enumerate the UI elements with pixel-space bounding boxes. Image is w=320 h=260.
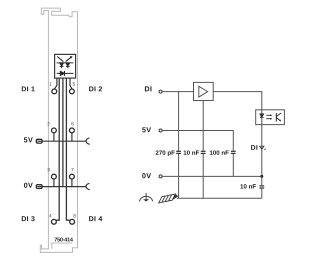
label 10 nF C4 xyxy=(240,184,255,188)
label 10 nF xyxy=(184,150,199,154)
amp triangle xyxy=(199,86,208,97)
5V pin symbol xyxy=(36,139,42,143)
terminal 1 xyxy=(52,89,57,94)
terminal 8 xyxy=(70,219,75,224)
label 100 nF xyxy=(210,150,229,154)
terminal 5 xyxy=(70,89,75,94)
label 5 V left xyxy=(24,137,33,142)
label DI 1 xyxy=(22,86,35,91)
capacitor C1 270pF xyxy=(176,151,181,153)
wire C1 to FE rail xyxy=(178,154,180,198)
LED box xyxy=(55,54,76,78)
LED D2 xyxy=(66,56,73,68)
5V terminal xyxy=(159,129,162,132)
terminal 6 xyxy=(70,128,75,133)
wire box to terminal 1 xyxy=(54,78,57,89)
wire opto to 0V junction xyxy=(261,118,263,177)
module foot plateau xyxy=(52,243,73,249)
label DI 4 xyxy=(89,216,102,221)
label pin 3 xyxy=(47,168,49,171)
wire junction to C4 xyxy=(261,176,263,185)
label pin 6 xyxy=(71,122,73,125)
label 270 pF xyxy=(156,150,175,156)
capacitor C2 10nF xyxy=(201,151,206,153)
0V power jumper contact xyxy=(86,183,90,189)
label 750-414 xyxy=(54,238,72,242)
wire box to 0V rail xyxy=(62,78,64,186)
wire amp to opto xyxy=(213,92,262,115)
terminal 4 xyxy=(52,219,57,224)
stub terminal 2 xyxy=(53,133,55,141)
5V power jumper contact xyxy=(86,138,90,144)
label DI right xyxy=(145,86,152,91)
surge suppression symbol xyxy=(139,193,152,202)
capacitor C3 100nF xyxy=(231,151,236,153)
LED pair line xyxy=(57,62,74,64)
opto LED xyxy=(260,114,264,117)
wire box to terminal 4 xyxy=(56,78,59,220)
label pin 5 xyxy=(73,82,75,85)
wire C3 to 0V rail xyxy=(232,154,234,177)
0V rail xyxy=(37,186,86,188)
label pin 1 xyxy=(49,82,51,85)
wire 5V to C3 xyxy=(162,131,233,151)
capacitor C4 10nF xyxy=(259,186,264,188)
label 0 V left xyxy=(24,183,33,188)
0V pin symbol xyxy=(36,185,42,189)
terminal 2 xyxy=(52,128,57,133)
wire DI node to C1 xyxy=(178,92,180,151)
label DI 2 xyxy=(89,86,102,91)
opto coupling arrows xyxy=(266,114,272,119)
label 5 V right xyxy=(142,127,151,132)
stub terminal 6 xyxy=(71,133,73,141)
functional earth hatched symbol xyxy=(159,194,179,203)
5V rail xyxy=(37,140,86,142)
label DI 3 xyxy=(22,216,35,221)
DI terminal xyxy=(159,90,162,93)
stub terminal 7 xyxy=(71,179,73,186)
diode in LED box xyxy=(57,71,74,76)
wire C2 to FE rail xyxy=(202,154,204,198)
0V terminal xyxy=(159,175,162,178)
label pin 7 xyxy=(71,168,73,171)
wire C4 to FE rail xyxy=(261,189,263,199)
opto phototransistor xyxy=(276,113,281,122)
LED D1 xyxy=(57,57,63,69)
label 0 V right xyxy=(142,173,151,178)
0V wire xyxy=(162,175,262,177)
amp U1 box xyxy=(194,82,214,100)
label pin 2 xyxy=(48,122,50,125)
terminal 7 xyxy=(70,174,75,179)
wire amp to C2 xyxy=(202,101,204,151)
wire box to terminal 8 xyxy=(66,78,69,220)
label pin 8 xyxy=(73,214,75,217)
wire DI to amp xyxy=(162,91,193,93)
stub terminal 3 xyxy=(53,179,55,186)
terminal 3 xyxy=(52,174,57,179)
label pin 4 xyxy=(49,214,51,217)
signal direction arrow on wire xyxy=(260,146,264,149)
module outline 750-414 body xyxy=(40,8,77,252)
label DI bus xyxy=(251,145,257,150)
junction node xyxy=(260,175,263,178)
FE rail xyxy=(177,197,262,199)
wire box to terminal 5 xyxy=(70,78,72,89)
optocoupler U2 box xyxy=(256,110,285,125)
